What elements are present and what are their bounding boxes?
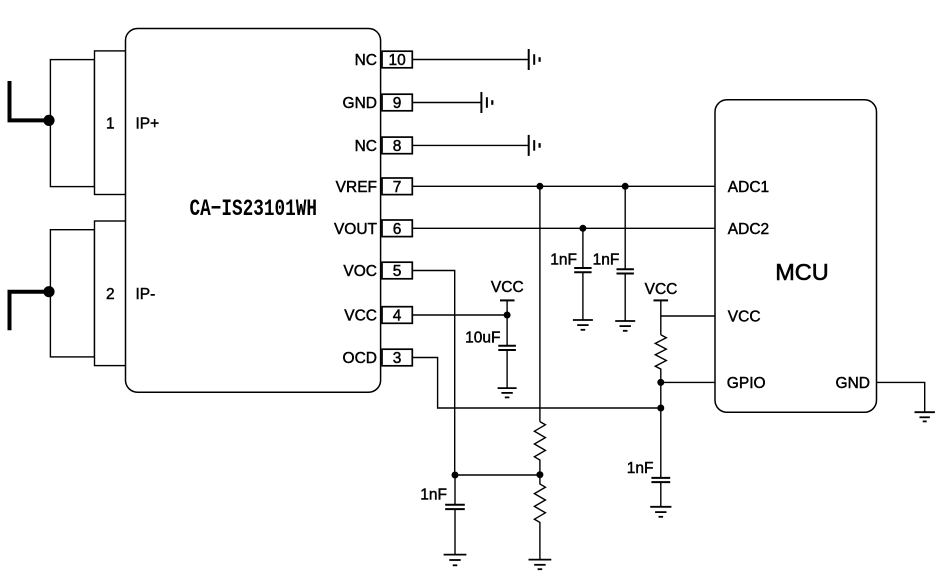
svg-text:VCC: VCC (728, 308, 761, 325)
svg-text:6: 6 (393, 221, 402, 238)
pin box 5 (382, 262, 412, 279)
input lead 1 (thick) (10, 81, 50, 120)
svg-text:VOC: VOC (343, 263, 377, 280)
pin box 8 (382, 137, 412, 154)
pin box 3 (382, 349, 412, 366)
svg-text:VREF: VREF (336, 179, 377, 196)
svg-text:7: 7 (393, 179, 402, 196)
wire pin8 to ground (412, 144, 528, 146)
capacitor C2 1nF (VREF) (617, 186, 634, 321)
VCC symbol (right) (654, 300, 669, 334)
svg-text:3: 3 (393, 350, 402, 367)
node pin4/VCC/10uF (504, 312, 511, 319)
svg-text:1nF: 1nF (593, 252, 620, 269)
wire VREF branch down to R1 (539, 186, 541, 421)
svg-text:4: 4 (393, 308, 402, 325)
wire pin9 to ground (412, 102, 480, 104)
svg-text:ADC2: ADC2 (728, 221, 769, 238)
ground C1 (573, 320, 593, 330)
capacitor C4 1nF (right) (651, 478, 670, 507)
svg-text:VCC: VCC (491, 279, 524, 296)
ground C2 (615, 321, 635, 331)
svg-text:1nF: 1nF (550, 252, 577, 269)
ground (rotated) pin8 (529, 135, 540, 156)
wire VOC pin5 down (412, 271, 454, 476)
node: terminal 1 junction dot (43, 115, 54, 126)
wire OCD pin3 (412, 358, 661, 409)
svg-text:1nF: 1nF (420, 487, 447, 504)
node: terminal 2 junction dot (43, 286, 54, 297)
pin box 4 (382, 307, 412, 324)
svg-text:ADC1: ADC1 (728, 179, 769, 196)
pin box 9 (382, 94, 412, 111)
node OCD net (657, 405, 664, 412)
wire pin10 to ground (412, 59, 528, 61)
node on VOUT at C1 branch (579, 225, 586, 232)
svg-text:NC: NC (355, 52, 377, 69)
ground R2 (529, 560, 552, 570)
ground C4 (650, 507, 671, 517)
terminal 1 body (50, 60, 94, 187)
svg-text:GND: GND (343, 95, 377, 112)
wire VCC branch to MCU (661, 315, 715, 317)
svg-text:MCU: MCU (775, 259, 829, 285)
svg-text:IP+: IP+ (136, 115, 160, 132)
wire VCC pin4 (412, 314, 507, 316)
pin box 2 (95, 221, 127, 366)
wire down to C4 (660, 408, 662, 478)
node divider (536, 471, 543, 478)
pin box 1 (95, 51, 127, 195)
pin box 10 (382, 51, 412, 68)
pin box 6 (382, 220, 412, 237)
ground C3 (444, 555, 467, 566)
terminal 2 body (50, 230, 94, 357)
wire VOUT pin6 to MCU ADC2 (412, 227, 715, 229)
node VOC/C3 (452, 472, 459, 479)
IC U1 CA-IS23101WH body (126, 29, 381, 393)
svg-text:10uF: 10uF (465, 330, 500, 347)
node on VREF at C2 branch (622, 183, 629, 190)
MCU U2 body (715, 100, 877, 413)
VCC symbol (left) (500, 300, 515, 315)
svg-text:1: 1 (106, 115, 115, 132)
ground (rotated) pin9 (481, 92, 492, 113)
wire MCU GND (877, 382, 925, 412)
svg-text:2: 2 (106, 286, 115, 303)
svg-text:GND: GND (836, 375, 870, 392)
capacitor 10uF (498, 315, 516, 388)
ground 10uF (498, 388, 517, 397)
svg-text:CA−IS23101WH: CA−IS23101WH (190, 196, 318, 222)
svg-text:NC: NC (355, 138, 377, 155)
capacitor C1 1nF (VOUT) (574, 228, 591, 320)
node GPIO (657, 379, 664, 386)
pin box 7 (382, 178, 412, 195)
svg-text:VCC: VCC (645, 281, 678, 298)
svg-text:OCD: OCD (343, 350, 377, 367)
node on VREF at R1 branch (536, 183, 543, 190)
svg-text:VCC: VCC (344, 308, 377, 325)
svg-text:GPIO: GPIO (727, 375, 766, 392)
svg-text:VOUT: VOUT (334, 221, 378, 238)
resistor R1 (534, 422, 545, 475)
svg-text:1nF: 1nF (627, 460, 654, 477)
ground MCU (915, 412, 935, 421)
capacitor C3 1nF (bottom left) (445, 475, 465, 555)
wire GPIO to MCU (661, 381, 715, 383)
resistor R3 (655, 335, 666, 408)
svg-text:IP-: IP- (136, 286, 156, 303)
resistor R2 (534, 475, 545, 560)
ground (rotated) pin10 (529, 49, 540, 70)
svg-text:9: 9 (393, 95, 402, 112)
svg-text:5: 5 (393, 263, 402, 280)
svg-text:8: 8 (393, 138, 402, 155)
wire divider node to C3 (455, 474, 540, 476)
svg-text:10: 10 (388, 52, 406, 69)
wire VREF pin7 to MCU ADC1 (412, 185, 715, 187)
input lead 2 (thick) (10, 292, 50, 331)
